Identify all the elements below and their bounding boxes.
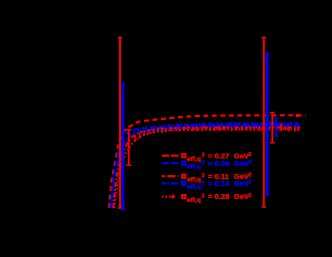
medium red error bar at t=129 (126, 130, 131, 166)
svg-text:eff,q: eff,q (187, 197, 201, 204)
svg-text:2: 2 (248, 152, 251, 158)
legend row 5: red dotted, m2 = 0.28 GeV2 (162, 192, 252, 204)
legend row 3: red dash-dot, m2 = 0.11 GeV2 (162, 172, 252, 184)
medium red error bar at t=272 (270, 113, 275, 143)
legend row 1: red long-dash, m2 = 0.27 GeV2 (162, 151, 252, 163)
svg-text:= 0.08: = 0.08 (208, 159, 229, 168)
curve blue m2=0.08 (long-dash) (111, 124, 301, 208)
curve red m2=0.27 (long-dash, top) (109, 115, 306, 208)
red data-point error ticks along band (135, 125, 298, 141)
svg-text:2: 2 (248, 159, 251, 165)
medium blue error bar at t=276 (274, 118, 278, 136)
red end-of-curve marker near x=297 (296, 114, 299, 117)
svg-text:2: 2 (248, 172, 251, 178)
curve red m2=0.11 (dash-dot) (113, 128, 300, 209)
svg-text:2: 2 (248, 193, 251, 199)
legend row 4: blue dash-dot, m2 = 0.14 GeV2 (162, 179, 252, 191)
svg-text:2: 2 (202, 153, 205, 159)
legend row 2: blue long-dash, m2 = 0.08 GeV2 (162, 159, 252, 171)
svg-text:= 0.28: = 0.28 (208, 192, 229, 201)
large red error bar at t=120 (118, 38, 123, 209)
svg-text:2: 2 (202, 194, 205, 200)
svg-text:2: 2 (202, 173, 205, 179)
large red error bar at t=264 (262, 38, 267, 208)
large blue error bar at t=267 (265, 54, 270, 196)
svg-text:eff,q: eff,q (187, 184, 201, 191)
data curves group (109, 115, 306, 208)
svg-text:eff,q: eff,q (187, 156, 201, 163)
svg-text:eff,q: eff,q (187, 176, 201, 183)
svg-text:2: 2 (248, 180, 251, 186)
svg-text:= 0.14: = 0.14 (208, 179, 230, 188)
plus marker on legend row 5 dotted sample (171, 194, 176, 199)
svg-text:2: 2 (202, 180, 205, 186)
svg-text:2: 2 (202, 160, 205, 166)
curve red m2=0.28 (dotted) (115, 129, 301, 208)
curve blue m2=0.14 (dash-dot) (112, 126, 300, 208)
large blue error bar at t=123 (121, 84, 126, 210)
blue data-point error ticks along band (134, 121, 296, 133)
tall red tick at x=281.6 (281, 123, 283, 131)
svg-text:eff,q: eff,q (187, 163, 201, 170)
